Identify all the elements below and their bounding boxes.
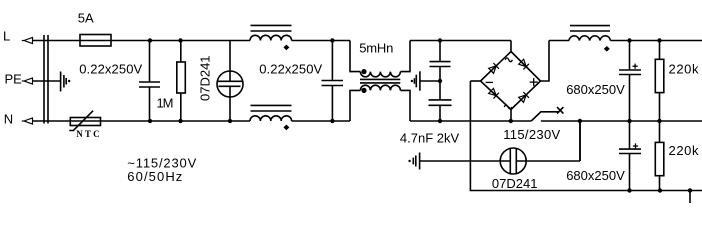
svg-text:5A: 5A (78, 11, 94, 26)
svg-text:60/50Hz: 60/50Hz (127, 169, 182, 184)
svg-text:4.7nF 2kV: 4.7nF 2kV (400, 130, 460, 145)
svg-text:07D241: 07D241 (492, 176, 538, 191)
svg-text:0.22x250V: 0.22x250V (259, 61, 322, 76)
svg-text:NTC: NTC (76, 129, 102, 139)
svg-text:07D241: 07D241 (197, 55, 212, 101)
svg-text:L: L (3, 28, 10, 43)
svg-text:0.22x250V: 0.22x250V (79, 61, 142, 76)
svg-text:PE: PE (5, 72, 23, 87)
svg-text:680x250V: 680x250V (566, 168, 625, 183)
svg-text:115/230V: 115/230V (503, 127, 560, 142)
svg-text:5mHn: 5mHn (359, 41, 393, 56)
svg-text:220k: 220k (669, 62, 700, 77)
svg-text:680x250V: 680x250V (566, 82, 625, 97)
svg-text:N: N (4, 112, 13, 127)
svg-text:1M: 1M (157, 96, 174, 111)
svg-text:220k: 220k (669, 143, 700, 158)
